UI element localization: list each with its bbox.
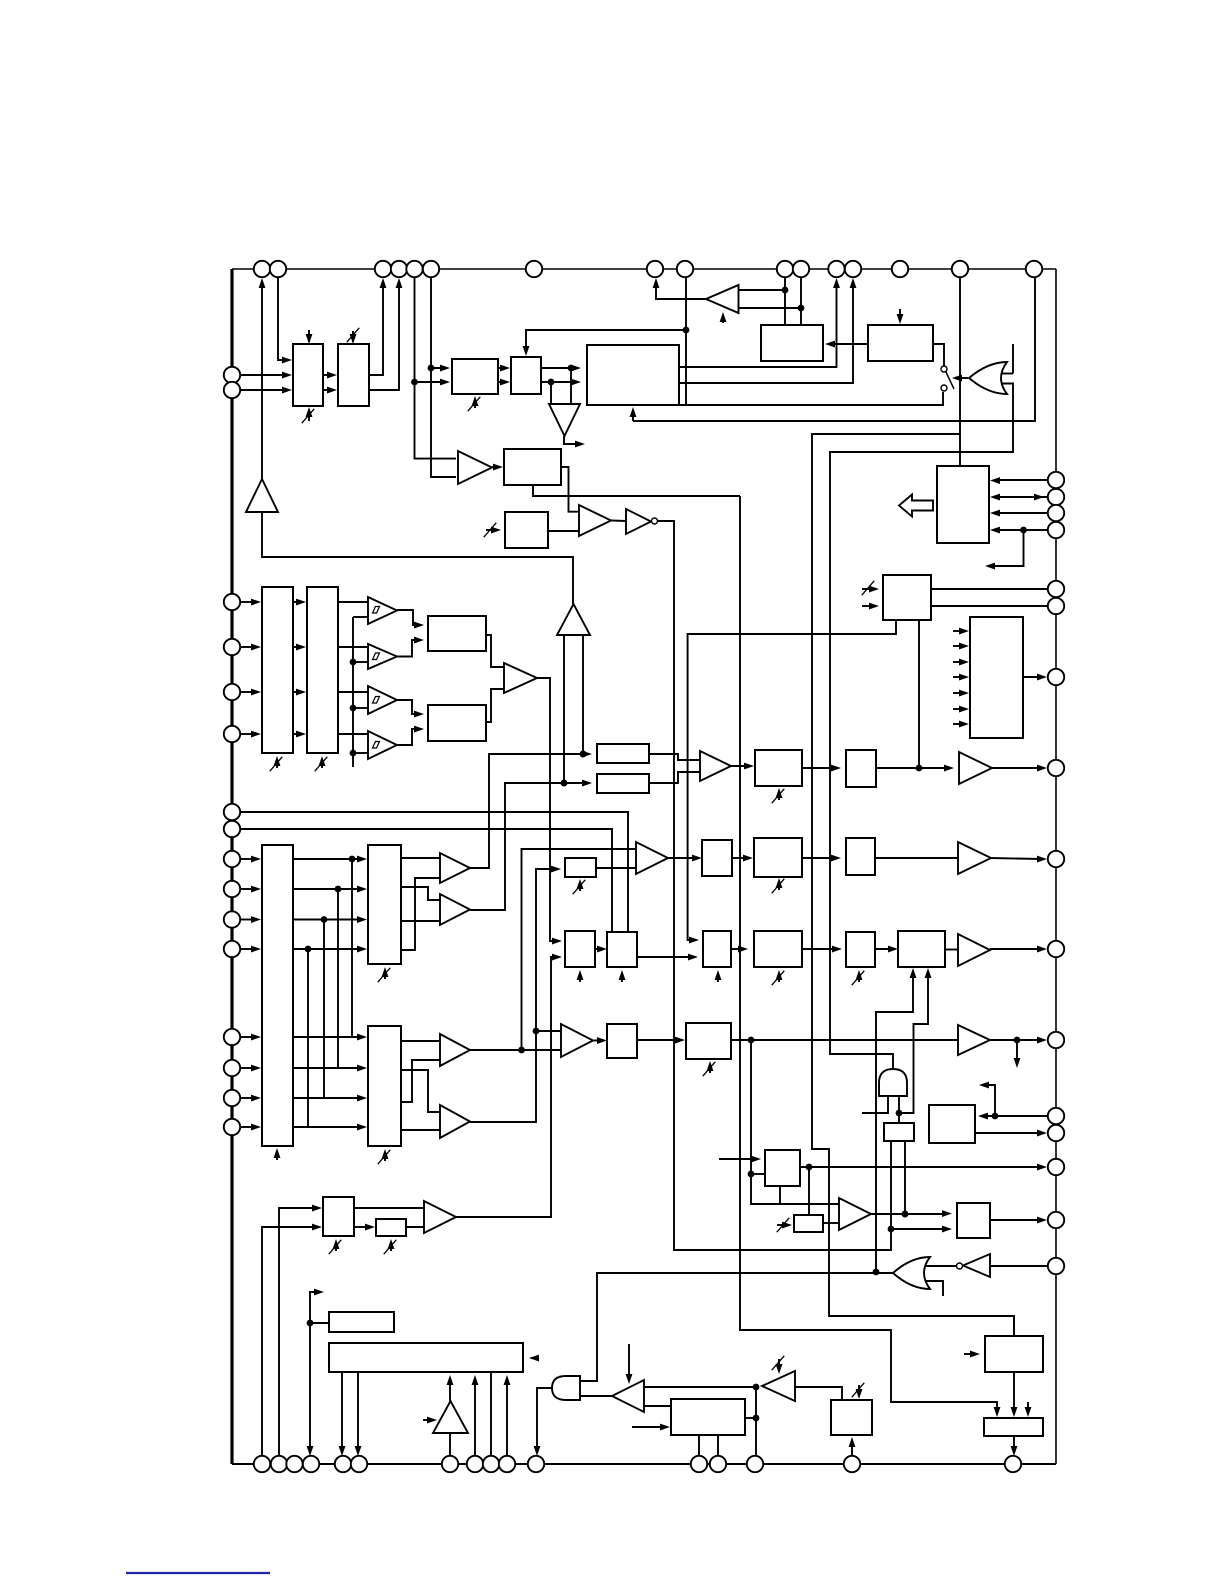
wire M1 out upper to top pin12 [679, 278, 840, 367]
slash clock arrow AE1 bottom [703, 1061, 716, 1076]
top pin 13 [845, 261, 861, 277]
or gate G1 input upper stub [1002, 344, 1013, 374]
wire RF to SB row3 with tap [293, 916, 367, 923]
right pin 4 [1048, 522, 1064, 538]
output register AY1 [984, 1418, 1043, 1436]
input stub P1 5 [953, 690, 969, 697]
wire left pin to RA row4 [240, 731, 261, 738]
chip boundary frame right edge [1055, 269, 1057, 1464]
bottom pin 3 [286, 1456, 302, 1472]
latch AB1 [703, 931, 731, 967]
bottom pin 11 [528, 1456, 544, 1472]
latch AF1 [846, 932, 875, 967]
amp B12 [424, 1201, 456, 1233]
right pin 13 [1048, 1125, 1064, 1141]
input stub P1 2 [953, 643, 969, 650]
wire RF to TB row3 [293, 1095, 367, 1102]
wire B5 to I1 [731, 763, 754, 770]
wire top pin5 via node to U2a lower [411, 277, 450, 385]
register AS1 [671, 1399, 745, 1435]
bottom pin 14 [747, 1456, 763, 1472]
register file RF [262, 845, 293, 1146]
wire schmitt S6 up to G1r [470, 780, 592, 910]
input stub P1 3 [953, 659, 969, 666]
wire right pin4 to K1 with tap [990, 527, 1048, 534]
wire AX1 bottom to AY1 [1011, 1372, 1018, 1417]
wire U3b to switch [933, 344, 944, 366]
control arrow into B13 top [626, 1344, 633, 1384]
wire tap drop to TB row1 [351, 859, 353, 1037]
wire AB1 to AC1 [731, 946, 748, 953]
wire F2 out to Y1 upper [596, 867, 636, 869]
clock arrow RF bottom [274, 1148, 281, 1160]
amp B5 [700, 751, 731, 781]
top pin 15 [952, 261, 968, 277]
wire left pin2 to U1a [240, 387, 292, 394]
schmitt trigger S3 [368, 686, 397, 714]
wire AL1 to amp B12 upper [354, 1207, 424, 1209]
wire AO node down to bottom pin4 [307, 1323, 314, 1456]
open down arrow from B9 tap [1014, 1040, 1021, 1068]
switch contact lower [941, 385, 947, 391]
wire TB out3 to V3 [401, 1060, 440, 1102]
chip boundary frame left edge [230, 269, 233, 1464]
wire G1r to amp B5 lower [649, 772, 700, 783]
slash input stub into E2 [484, 523, 501, 537]
bottom pin 1 [254, 1456, 270, 1472]
wire AG1 bottom A from nor node [873, 968, 917, 1275]
wire tap drop to TB row4 [307, 949, 309, 1127]
left pin 2 [224, 382, 240, 398]
wire RA to RB row4 [293, 731, 306, 738]
wire A5 base to bottom pin7 [449, 1433, 451, 1456]
wire right pin12 to AK1 [978, 1113, 1048, 1120]
wire F1 to amp B5 upper [649, 754, 700, 760]
and gate G2 right input [898, 1096, 900, 1113]
top pin 14 [892, 261, 908, 277]
control register L2 [883, 575, 931, 620]
wire left pin to RF row7 [240, 1095, 261, 1102]
wire AF1 to AG1 [875, 946, 898, 953]
or gate G3 lower input open stub [925, 1281, 943, 1296]
switch contact upper [941, 366, 947, 372]
slash clock arrow AC1 bottom [772, 970, 785, 985]
bottom pin 2 [271, 1456, 287, 1472]
wire left pin to RA row2 [240, 644, 261, 651]
wire node to AO1 [307, 1320, 329, 1327]
amp B7 [958, 842, 991, 874]
left pin 13 [224, 1029, 240, 1045]
main divider M1 [587, 345, 679, 405]
right pin 7 [1048, 669, 1064, 685]
slash control arrow into AZ1 top [852, 1383, 865, 1399]
wire AY1 to bottom pin16 [1011, 1436, 1018, 1456]
input stub L2 lower [862, 603, 879, 610]
top pin 8 [647, 261, 663, 277]
schmitt trigger S4 [368, 731, 397, 759]
wire E1 right to amp B2 upper [561, 467, 579, 512]
wire A4 left leg [561, 635, 568, 786]
wire left pin8 to X2 top [240, 829, 612, 932]
wire RB to schmitt row3 [338, 691, 368, 693]
wire AB2 to amp B10 [823, 1222, 839, 1224]
right pin 12 [1048, 1108, 1064, 1124]
wire RF to TB row2 [293, 1065, 367, 1072]
left pin 12 [224, 941, 240, 957]
slash clock arrow AN1 bottom [384, 1239, 397, 1254]
amp B8 [958, 934, 990, 966]
wire U1a to U1b upper [323, 372, 337, 379]
left pin 6 [224, 726, 240, 742]
wire V3 out to W1 and up [470, 1047, 561, 1054]
wire tap up to Y1 lower [522, 849, 637, 1050]
wire X1 to X2 [595, 946, 607, 953]
register U3a [761, 325, 823, 361]
wire G4 output down to bottom pin11 [534, 1388, 552, 1456]
open arrow tap from pin4 wire [985, 530, 1024, 569]
left pin 1 [224, 367, 240, 383]
amp B14 pointing left [762, 1371, 795, 1401]
wire AK1 to right pin13 [975, 1130, 1047, 1137]
mux amp Y1 [636, 842, 668, 874]
divider Z3 [846, 838, 875, 875]
wire AI1 left leg down to node [888, 1141, 895, 1232]
wire RA to RB row3 [293, 689, 306, 696]
amp B6 [959, 752, 992, 784]
slash-marked clock arrow into U1b top [347, 328, 360, 344]
bottom pin 5 [335, 1456, 351, 1472]
right pin 6 [1048, 598, 1064, 614]
wire K1 top to pin15 and bus [959, 277, 961, 466]
clock arrow AB1 bottom [715, 970, 722, 982]
top pin 16 [1026, 261, 1042, 277]
flip-flop AI1 [884, 1123, 914, 1141]
wire node column AS AZ [753, 1387, 760, 1456]
wire B9 to right pin11 with tap [990, 1037, 1047, 1044]
clock arrow X2 bottom [619, 970, 626, 982]
inverter B11 [963, 1254, 990, 1277]
wire RF to SB row1 with tap [293, 856, 367, 863]
input stub into A5 [423, 1417, 437, 1424]
right pin 2 [1048, 489, 1064, 505]
right pin 16 [1048, 1258, 1064, 1274]
wire node to comparator B1 lower [431, 368, 456, 477]
wire RB to schmitt row2 [338, 646, 368, 648]
wire AE tap down to AA1r [748, 1040, 765, 1177]
wire AS1 to node [745, 1417, 756, 1419]
bottom pin 13 [710, 1456, 726, 1472]
right pin 1 [1048, 472, 1064, 488]
left pin 7 [224, 804, 240, 820]
ref stub to S4 [353, 752, 368, 754]
wire tap drop to TB row3 [323, 920, 325, 1099]
left pin 14 [224, 1060, 240, 1076]
wire S2 to C1 [397, 637, 424, 657]
wire node to down-amp right [550, 382, 552, 404]
wire left pin7 to X2 top [240, 812, 628, 932]
slash input stub L2 upper [862, 581, 879, 595]
right pin 11 [1048, 1032, 1064, 1048]
inverter B13 [612, 1380, 644, 1412]
wire tap down to AB2 top [808, 1167, 810, 1215]
wire RA to RB row2 [293, 644, 306, 651]
delay F2 [565, 858, 596, 877]
wire amp A1 input from node [262, 512, 573, 604]
wire AU1 to right pin15 [990, 1217, 1047, 1224]
top pin 1 [254, 261, 270, 277]
wire left pin to RF row6 [240, 1065, 261, 1072]
bottom pin 9 [483, 1456, 499, 1472]
register bank SB [368, 845, 401, 964]
or gate G1 output arrow to switch [952, 375, 968, 382]
wire left pin to RF row4 [240, 946, 261, 953]
prescaler AB2 [794, 1215, 823, 1232]
wire AG1 to amp B8 [945, 949, 958, 951]
top pin 6 [423, 261, 439, 277]
register bank TB [368, 1026, 401, 1146]
wire B1 to E1 [492, 464, 503, 471]
wire RF to SB row4 with tap [293, 946, 367, 953]
top pin 5 [406, 261, 422, 277]
register AG1 [898, 931, 945, 967]
register F1 [597, 744, 649, 763]
bottom pin 8 [467, 1456, 483, 1472]
bottom pin 16 [1005, 1456, 1021, 1472]
wire AG1 bottom B to node [896, 968, 932, 1116]
wire L2 to right pin5 [931, 588, 1048, 590]
wire B12 output up to X1 lower [456, 954, 562, 1217]
wire M2 to amp B6 with tap [876, 765, 954, 772]
control arrow into AY1 top [1025, 1402, 1032, 1417]
amp B9 [958, 1025, 990, 1055]
wire S1 to C1 [397, 610, 424, 628]
top pin 7 [526, 261, 542, 277]
wire AX1 top from bus [1013, 1316, 1015, 1336]
wire bottom pin10 to AP1 [504, 1375, 511, 1456]
wire amp A1 to top pin1 [259, 278, 266, 479]
decoder P1 [970, 617, 1023, 738]
wire bottom pin9 to AP1 [490, 1372, 492, 1456]
latch C2 [428, 705, 486, 741]
amp A3 tap lower to pin11 line [739, 305, 805, 312]
bottom pin 10 [499, 1456, 515, 1472]
right pin 8 [1048, 760, 1064, 776]
wire V1 out up to F2 [470, 867, 489, 869]
bottom pin 6 [351, 1456, 367, 1472]
comparator V4 [440, 1105, 470, 1138]
chip boundary frame top edge [232, 268, 1056, 270]
right pin 14 [1048, 1159, 1064, 1175]
wire A5 apex to AP1 bottom [447, 1375, 454, 1401]
open arrow from down amp A2 [564, 436, 585, 447]
wire M1 clock to top pin16 [633, 277, 1035, 421]
wire AC1 to AF1 [802, 946, 842, 953]
wire AP1 bottom to pin6 [355, 1372, 362, 1456]
wire U2a to U2b lower [498, 379, 510, 386]
input stub P1 4 [953, 674, 969, 681]
wire Z1 to Z2 [733, 855, 753, 862]
wire top pin2 to U1a [278, 277, 292, 363]
chip boundary frame bottom edge [232, 1463, 1056, 1465]
inverter B3 [626, 509, 651, 534]
left pin 15 [224, 1090, 240, 1106]
slash clock arrow TB bottom [378, 1149, 391, 1164]
wire left pin to RF row2 [240, 886, 261, 893]
wire SB out2 to V2 [401, 887, 440, 900]
wire inverter B3 output down long [658, 521, 892, 1250]
latch C1 [428, 616, 486, 651]
wire tap drop to TB row2 [337, 889, 339, 1068]
wire B2 to B3 [611, 520, 626, 523]
latch X2 [607, 932, 637, 967]
slash clock arrow I1 bottom [772, 788, 785, 803]
wire RB to schmitt row1 [338, 601, 368, 603]
switch arm [946, 371, 955, 389]
wire A4 right leg [580, 635, 587, 757]
slash clock arrow RA bottom [270, 756, 283, 771]
register AC1 [754, 931, 802, 967]
slash clock arrow RB bottom [315, 756, 328, 771]
wire TB out4 to V4 [401, 1129, 440, 1131]
register U2a [452, 359, 498, 394]
top pin 4 [391, 261, 407, 277]
wire SB out1 to V1 [401, 857, 440, 859]
wire top pin11 to U3a [800, 277, 802, 325]
wire AZ1 top to B14 input [795, 1387, 842, 1400]
wire left pin to RF row8 [240, 1124, 261, 1131]
register AN1 [376, 1219, 406, 1236]
wire AA1r bottom to y1204 [779, 1186, 781, 1204]
slash clock arrow AL1 bottom [329, 1239, 342, 1254]
or gate G3 [893, 1257, 930, 1289]
wire C2 to B4 lower [486, 689, 504, 722]
slash clock arrow F2 bottom [573, 879, 586, 894]
schmitt trigger S2 [368, 644, 397, 669]
bottom pin 7 [442, 1456, 458, 1472]
right pin 3 [1048, 505, 1064, 521]
wire inverter line node to AU1 lower [891, 1226, 952, 1233]
slash-marked clock arrow into U1a bottom [302, 407, 315, 423]
left pin 9 [224, 851, 240, 867]
wire TB out2 to V4 [401, 1070, 440, 1112]
wire AK2 to AS1 [644, 1405, 671, 1407]
register AK1 [929, 1105, 975, 1143]
bottom pin 12 [691, 1456, 707, 1472]
output register AU1 [957, 1203, 990, 1238]
top pin 11 [793, 261, 809, 277]
bottom pin 4 [303, 1456, 319, 1472]
wire node to down-amp left [570, 368, 572, 404]
wire top pin10 to U3a [784, 277, 786, 325]
left pin 10 [224, 881, 240, 897]
slash clock arrow AF1 bottom [852, 970, 865, 985]
wire left pin1 to U1a [240, 372, 292, 379]
divider Z1 [702, 840, 732, 876]
wire node down to AI1 top [898, 1113, 900, 1123]
top pin 2 [270, 261, 286, 277]
wire B13 to G4 lower input [580, 1395, 612, 1397]
wire tap to U2b top [523, 330, 686, 356]
loop filter E1 [504, 449, 561, 485]
wire E2 to amp B2 lower [548, 530, 579, 532]
wire long feedback to AY1 top [740, 496, 1000, 1417]
slash clock arrow SB bottom [378, 967, 391, 982]
wire left pin to RF row5 [240, 1034, 261, 1041]
mux amp B4 [504, 663, 537, 693]
register bank RB [307, 587, 338, 753]
left pin 16 [224, 1119, 240, 1135]
wire SB out4 to V1 [401, 878, 440, 950]
wire bottom pin8 to AP1 [472, 1375, 479, 1456]
wire B10 to AU1 with tap [871, 1210, 952, 1217]
comparator V3 [440, 1034, 470, 1066]
input stub P1 1 [953, 628, 969, 635]
inverting amp A3 [706, 285, 739, 313]
wire U2b to M1 lower with node [541, 379, 581, 386]
wire U1b to top pin3 [369, 278, 386, 375]
wire right pin1 to K1 [990, 477, 1048, 484]
wire top pin6 via node to U2a upper [428, 277, 450, 371]
right pin 15 [1048, 1212, 1064, 1228]
wire U3b to U3a [825, 341, 868, 348]
clock arrow X1 bottom [577, 970, 584, 982]
wire V4 out up to F2 [470, 866, 561, 1122]
input stub into AS1 [632, 1424, 670, 1431]
hollow block arrow pointing left [899, 495, 933, 517]
wire RA to RB row1 [293, 599, 306, 606]
wire node down along to AT upper [751, 1174, 839, 1204]
wire left pin to RA row1 [240, 599, 261, 606]
top pin 10 [777, 261, 793, 277]
top pin 12 [828, 261, 844, 277]
wire E1 bottom long feedback [533, 485, 740, 496]
wire AS1 leg to bottom pin13 [717, 1435, 719, 1456]
wire S4 to C2 [397, 726, 424, 745]
or gate G1 [969, 362, 1007, 394]
wire Z3 to amp B7 [875, 857, 958, 859]
left pin 4 [224, 639, 240, 655]
register bank RA [262, 587, 293, 753]
amp A3 tap upper to pin10 line [739, 287, 789, 294]
bus wire from K1 node left-down [812, 434, 1014, 1336]
register M2 [846, 750, 876, 787]
amp B2 [579, 505, 611, 536]
open arrow stub into AP1 right [529, 1355, 539, 1362]
interface block K1 [937, 466, 989, 543]
wire AN1 to amp B12 lower [406, 1226, 424, 1228]
vco triangle A4 [557, 604, 590, 635]
wire G3 output long left to and G4 [581, 1273, 893, 1381]
register U3b [868, 325, 933, 361]
right pin 10 [1048, 941, 1064, 957]
ref stub to S2 [353, 661, 368, 663]
wire top pin9 tap to M1 bus [683, 277, 690, 405]
down amp A2 [549, 404, 580, 436]
wire node to comparator B1 upper [415, 382, 457, 459]
wire amp A3 out to top pin8 [653, 278, 706, 299]
wire M1 bottom-right bus to switch [679, 392, 943, 405]
wire U1a to U1b lower [323, 387, 337, 394]
open input stub to AA1r [719, 1156, 761, 1163]
wire AD1 to AE1 [637, 1037, 685, 1044]
and gate G4 [552, 1376, 580, 1400]
input stub P1 6 [953, 706, 969, 713]
osc amp A5 [433, 1401, 468, 1433]
wire right pin16 to B11 [990, 1265, 1048, 1267]
latch AD1 [607, 1024, 637, 1058]
right pin 9 [1048, 851, 1064, 867]
register U1b [338, 344, 369, 406]
